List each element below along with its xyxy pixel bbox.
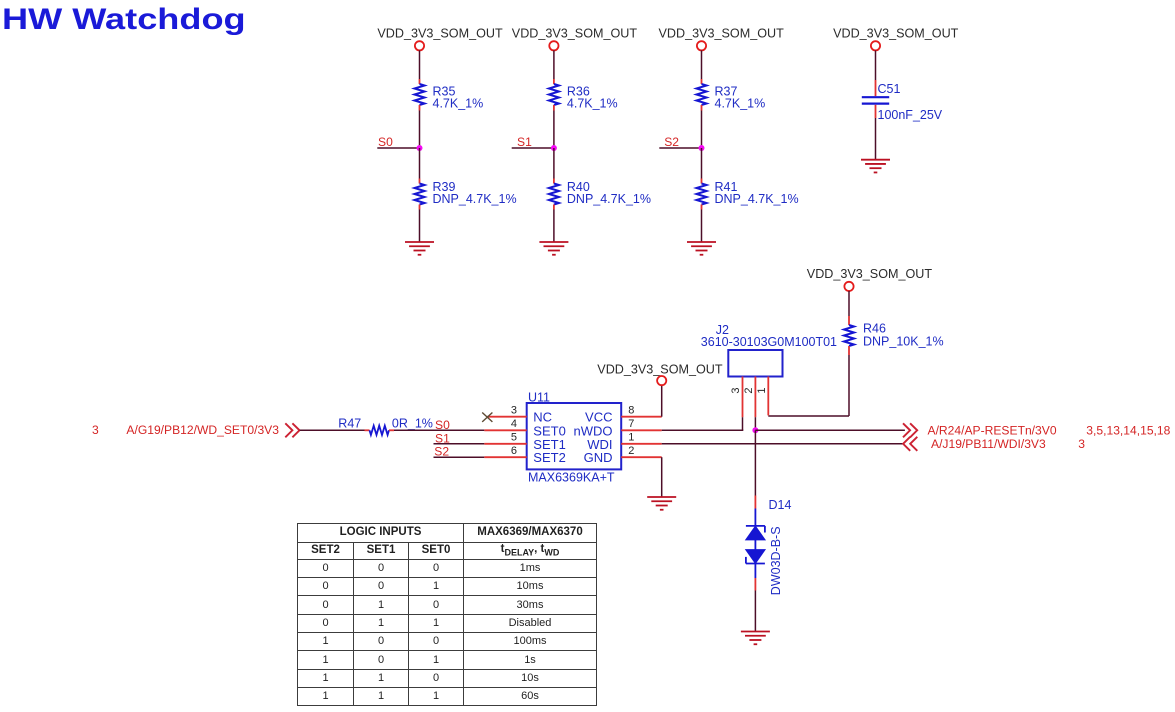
svg-text:0R_1%: 0R_1%: [392, 416, 433, 430]
wire R35 column: power to resistor: [419, 50, 421, 79]
U11 pin 8 (VCC): [585, 404, 662, 424]
node S0 (net label + stub wire + junction): [377, 135, 422, 151]
wire node S1 to R40: [553, 148, 555, 179]
wire R37 column: power to resistor: [701, 50, 703, 79]
svg-text:S2: S2: [434, 445, 449, 459]
resistor R41: [697, 179, 799, 210]
U11 pin 1 (WDI): [587, 432, 661, 452]
connector J2 body: [728, 350, 782, 377]
svg-text:A/J19/PB11/WDI/3V3: A/J19/PB11/WDI/3V3: [931, 437, 1046, 451]
svg-text:DNP_4.7K_1%: DNP_4.7K_1%: [433, 192, 517, 206]
svg-text:DNP_4.7K_1%: DNP_4.7K_1%: [567, 192, 651, 206]
wire R46 down: [848, 355, 850, 416]
wire power to C51: [875, 50, 877, 80]
power symbol VDD_3V3_SOM_OUT (R46 column): [807, 267, 933, 291]
resistor R35: [415, 79, 484, 111]
U11 pin 6 (SET2): [484, 445, 566, 465]
svg-text:1: 1: [628, 432, 634, 444]
port chevron << (A/J19/PB11/WDI/3V3): [903, 437, 917, 451]
svg-text:7: 7: [628, 418, 634, 430]
svg-text:DW03D-B-S: DW03D-B-S: [769, 526, 783, 595]
svg-text:A/G19/PB12/WD_SET0/3V3: A/G19/PB12/WD_SET0/3V3: [126, 423, 279, 437]
U11 pin 7 (nWDO): [574, 418, 662, 438]
svg-text:5: 5: [511, 432, 517, 444]
svg-text:2: 2: [628, 445, 634, 457]
svg-text:3: 3: [92, 423, 99, 437]
svg-text:R47: R47: [338, 416, 361, 430]
wire power to R46: [848, 291, 850, 316]
resistor R40: [549, 179, 651, 210]
svg-text:2: 2: [743, 387, 755, 393]
wire R41 to ground: [701, 210, 703, 243]
resistor R39: [415, 179, 517, 210]
wire R39 to ground: [419, 210, 421, 243]
ground (D14): [741, 632, 770, 645]
svg-text:C51: C51: [878, 82, 901, 96]
node S1 (net label + stub wire + junction): [512, 135, 557, 151]
wire R46 to J2 pin 1: [768, 415, 849, 417]
wire C51 to ground: [875, 118, 877, 160]
node S2 wire to U11 pin 6: [434, 445, 485, 459]
IC U11 body: [527, 403, 622, 469]
svg-text:VDD_3V3_SOM_OUT: VDD_3V3_SOM_OUT: [833, 26, 959, 40]
wire junction to output port: [755, 429, 905, 431]
svg-text:3610-30103G0M100T01: 3610-30103G0M100T01: [701, 335, 837, 349]
svg-text:SET2: SET2: [533, 450, 566, 465]
svg-text:GND: GND: [584, 450, 613, 465]
wire junction down to D14: [754, 430, 756, 495]
svg-text:3: 3: [730, 387, 742, 393]
node S1 wire to U11 pin 5: [434, 431, 485, 445]
ground (R41 column): [687, 242, 716, 255]
power symbol VDD_3V3_SOM_OUT (R36 column): [512, 26, 638, 50]
wire R37 to node S2: [701, 111, 703, 149]
svg-text:A/R24/AP-RESETn/3V0: A/R24/AP-RESETn/3V0: [928, 424, 1057, 438]
wire J2 pin 3 to nWDO net: [742, 417, 744, 430]
resistor R37: [697, 79, 766, 111]
wire U11 VCC up to power: [661, 385, 663, 417]
svg-text:3: 3: [1078, 437, 1085, 451]
wire node S2 to R41: [701, 148, 703, 179]
title HW Watchdog: [2, 3, 246, 37]
node S2 (net label + stub wire + junction): [659, 135, 704, 151]
svg-text:4.7K_1%: 4.7K_1%: [715, 96, 766, 110]
svg-text:DNP_10K_1%: DNP_10K_1%: [863, 335, 944, 349]
junction nWDO/J2.2/D14: [752, 427, 758, 433]
U11 pin 3 (NC): [487, 404, 552, 424]
power symbol VDD_3V3_SOM_OUT (U11 VCC): [597, 362, 723, 385]
wire U11 GND down to ground: [661, 457, 663, 497]
ground (U11 GND): [647, 497, 676, 510]
svg-text:S1: S1: [435, 431, 450, 445]
power symbol VDD_3V3_SOM_OUT (R37 column): [659, 26, 785, 50]
svg-text:3,5,13,14,15,18: 3,5,13,14,15,18: [1086, 424, 1170, 438]
J2 pin 3: [730, 377, 743, 418]
svg-text:4.7K_1%: 4.7K_1%: [433, 96, 484, 110]
wire R40 to ground: [553, 210, 555, 243]
resistor R47: [338, 416, 433, 435]
ground (R40 column): [539, 242, 568, 255]
svg-text:6: 6: [511, 445, 517, 457]
wire R36 column: power to resistor: [553, 50, 555, 79]
port chevron >> (A/R24/AP-RESETn/3V0): [903, 423, 917, 437]
svg-text:1: 1: [756, 387, 768, 393]
U11 pin 4 (SET0): [484, 418, 566, 438]
port chevron >> (left): [285, 423, 299, 437]
svg-text:VDD_3V3_SOM_OUT: VDD_3V3_SOM_OUT: [659, 26, 785, 40]
U11 pin 2 (GND): [584, 445, 662, 465]
power symbol VDD_3V3_SOM_OUT (R35 column): [377, 26, 503, 50]
U11 pin 5 (SET1): [484, 432, 566, 452]
svg-text:S0: S0: [378, 135, 393, 149]
J2 pin 2: [743, 377, 756, 418]
capacitor C51: [862, 80, 943, 122]
wire port to R47: [300, 429, 365, 431]
no-connect X on U11 pin 3: [482, 413, 492, 422]
svg-text:4: 4: [511, 418, 517, 430]
svg-text:S1: S1: [517, 135, 532, 149]
J2 pin 1: [756, 377, 769, 416]
ground (R39 column): [405, 242, 434, 255]
power symbol VDD_3V3_SOM_OUT (C51 column): [833, 26, 959, 50]
wire R35 to node S0: [419, 111, 421, 149]
svg-text:VDD_3V3_SOM_OUT: VDD_3V3_SOM_OUT: [512, 26, 638, 40]
ground (C51 column): [861, 160, 890, 173]
svg-text:VDD_3V3_SOM_OUT: VDD_3V3_SOM_OUT: [807, 267, 933, 281]
svg-text:100nF_25V: 100nF_25V: [878, 108, 943, 122]
svg-text:VDD_3V3_SOM_OUT: VDD_3V3_SOM_OUT: [597, 362, 723, 376]
logic inputs table: [297, 523, 597, 706]
svg-text:S0: S0: [435, 418, 450, 432]
svg-text:S2: S2: [664, 135, 679, 149]
wire node S0 to R39: [419, 148, 421, 179]
svg-text:3: 3: [511, 404, 517, 416]
wire nWDO net to J2 pin 3: [662, 429, 744, 431]
svg-text:MAX6369KA+T: MAX6369KA+T: [528, 471, 615, 485]
wire J2 pin 2 down to junction: [754, 417, 756, 430]
svg-text:R46: R46: [863, 322, 886, 336]
wire D14 to ground: [754, 591, 756, 632]
wire R47 to U11 pin 4, node S0: [394, 418, 484, 432]
wire WDI net to port: [662, 443, 904, 445]
resistor R46: [844, 316, 944, 355]
svg-text:4.7K_1%: 4.7K_1%: [567, 96, 618, 110]
svg-text:8: 8: [628, 404, 634, 416]
resistor R36: [549, 79, 618, 111]
wire R36 to node S1: [553, 111, 555, 149]
diode D14 (DW03D-B-S dual TVS): [746, 496, 792, 596]
svg-text:VDD_3V3_SOM_OUT: VDD_3V3_SOM_OUT: [377, 26, 503, 40]
svg-text:D14: D14: [769, 498, 792, 512]
svg-text:DNP_4.7K_1%: DNP_4.7K_1%: [715, 192, 799, 206]
